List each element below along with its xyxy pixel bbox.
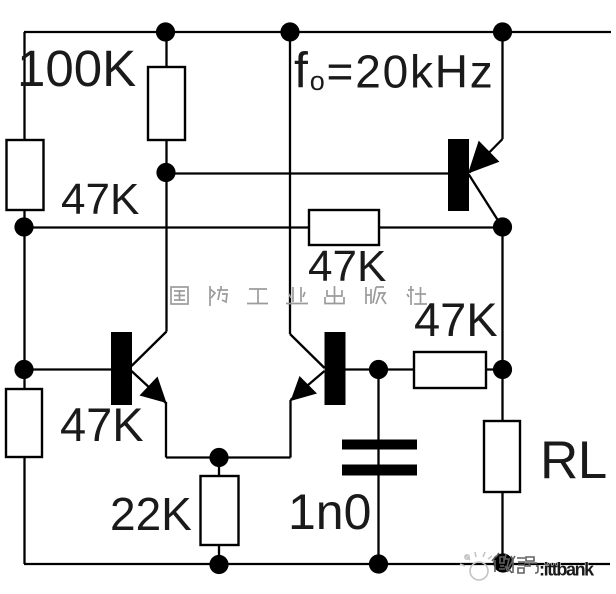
wire C1 lead vertical — [377, 370, 379, 565]
resistor R4 47K body (lower left) — [6, 389, 42, 457]
wire top supply rail — [24, 31, 611, 33]
svg-text:47K: 47K — [61, 175, 139, 224]
svg-text:100K: 100K — [17, 40, 136, 97]
wire common emitter row — [166, 456, 291, 458]
watermark char 防 — [210, 286, 228, 306]
resistor R2 47K body (upper left) — [7, 140, 44, 210]
watermark char 版 — [366, 287, 386, 304]
junction node C (502,369) — [493, 360, 512, 379]
wire Q1 base — [25, 368, 112, 370]
wire Q1 emitter vertical — [165, 402, 167, 458]
junction top-right (502,32) — [493, 22, 512, 41]
watermark char 出 — [325, 286, 344, 304]
watermark char 国 — [171, 287, 188, 304]
wire bottom rail — [24, 563, 610, 565]
wire Q3 emitter diagonal — [470, 139, 503, 173]
wire node B row right — [379, 226, 503, 228]
junction bottom 22K (219,565) — [209, 555, 228, 574]
resistor R6 22K body — [201, 476, 239, 545]
transistor Q1 base bar — [111, 332, 132, 405]
resistor RL body — [484, 421, 520, 492]
resistor R1 100K body — [148, 67, 185, 140]
capacitor C1 top plate — [342, 440, 417, 450]
wire left rail upper — [23, 32, 25, 140]
wire left rail lower — [23, 457, 25, 564]
resistor R5 47K body (right horizontal) — [414, 352, 486, 388]
wire 22K top lead — [218, 458, 220, 477]
transistor Q2 base bar — [325, 332, 346, 405]
wire left rail middle — [23, 210, 25, 389]
wire Q3 emitter vertical — [501, 32, 503, 139]
wire Q2 emitter diagonal — [291, 371, 325, 400]
watermark ittbank logo icon — [460, 552, 492, 580]
wire Q1 emitter diagonal — [132, 371, 167, 403]
junction left rail (24,227) — [14, 217, 33, 236]
junction bottom RL (503,563) — [493, 553, 512, 572]
svg-text::ittbank: :ittbank — [539, 560, 595, 580]
transistor Q3 emitter arrow — [468, 141, 499, 174]
wire Q2 collector diagonal — [290, 334, 325, 368]
wire Q1 collector diagonal — [132, 332, 167, 367]
wire R5 to node C — [486, 368, 503, 370]
junction top-mid (290,32) — [280, 22, 299, 41]
wire 22K bottom lead — [218, 545, 220, 564]
wire RL top lead — [501, 370, 503, 422]
wire R1 top lead — [165, 32, 167, 67]
transistor Q3 base bar — [448, 139, 469, 211]
junction node A (166,172) — [156, 163, 175, 182]
wire R1 bottom lead — [165, 140, 167, 172]
wire RL bottom lead — [501, 492, 503, 564]
watermark char 业 — [286, 287, 308, 304]
wire node B row left — [25, 226, 310, 228]
junction Q2 base node (378,369) — [369, 360, 388, 379]
wire node A to Q1 collector vertical — [165, 172, 167, 332]
watermark char 工 — [247, 289, 268, 304]
junction top-left (165,32) — [156, 22, 175, 41]
wire node A to Q3 base — [166, 172, 448, 174]
watermark char 号 — [524, 557, 538, 573]
svg-text:47K: 47K — [60, 398, 144, 451]
watermark char 信 — [512, 556, 525, 573]
wire right rail mid — [501, 228, 503, 370]
junction bottom C1 (378,564) — [369, 554, 388, 573]
svg-text:RL: RL — [540, 431, 607, 490]
svg-text:1n0: 1n0 — [288, 484, 371, 540]
transistor Q1 emitter arrow — [140, 377, 167, 404]
svg-text:22K: 22K — [110, 488, 192, 540]
resistor R3 47K body (middle horizontal) — [309, 210, 379, 245]
transistor Q2 emitter arrow — [291, 376, 318, 401]
svg-text:47K: 47K — [414, 293, 498, 346]
watermark 微信号:ittbank — [492, 553, 538, 573]
watermark char 微 — [492, 553, 513, 573]
capacitor C1 bottom plate — [342, 465, 417, 476]
wire Q2 emitter vertical — [289, 400, 291, 458]
wire Q2 base — [346, 368, 415, 370]
junction emitter row (219,457) — [209, 448, 228, 467]
watermark 国防工业出版社 — [171, 286, 427, 306]
svg-text:47K: 47K — [308, 242, 386, 291]
wire Q2 collector vertical — [289, 32, 291, 334]
junction left rail base (24,369) — [14, 360, 33, 379]
junction node B right (502,227) — [493, 217, 512, 236]
watermark char 社 — [407, 286, 427, 305]
wire Q3 collector diagonal — [469, 174, 503, 228]
